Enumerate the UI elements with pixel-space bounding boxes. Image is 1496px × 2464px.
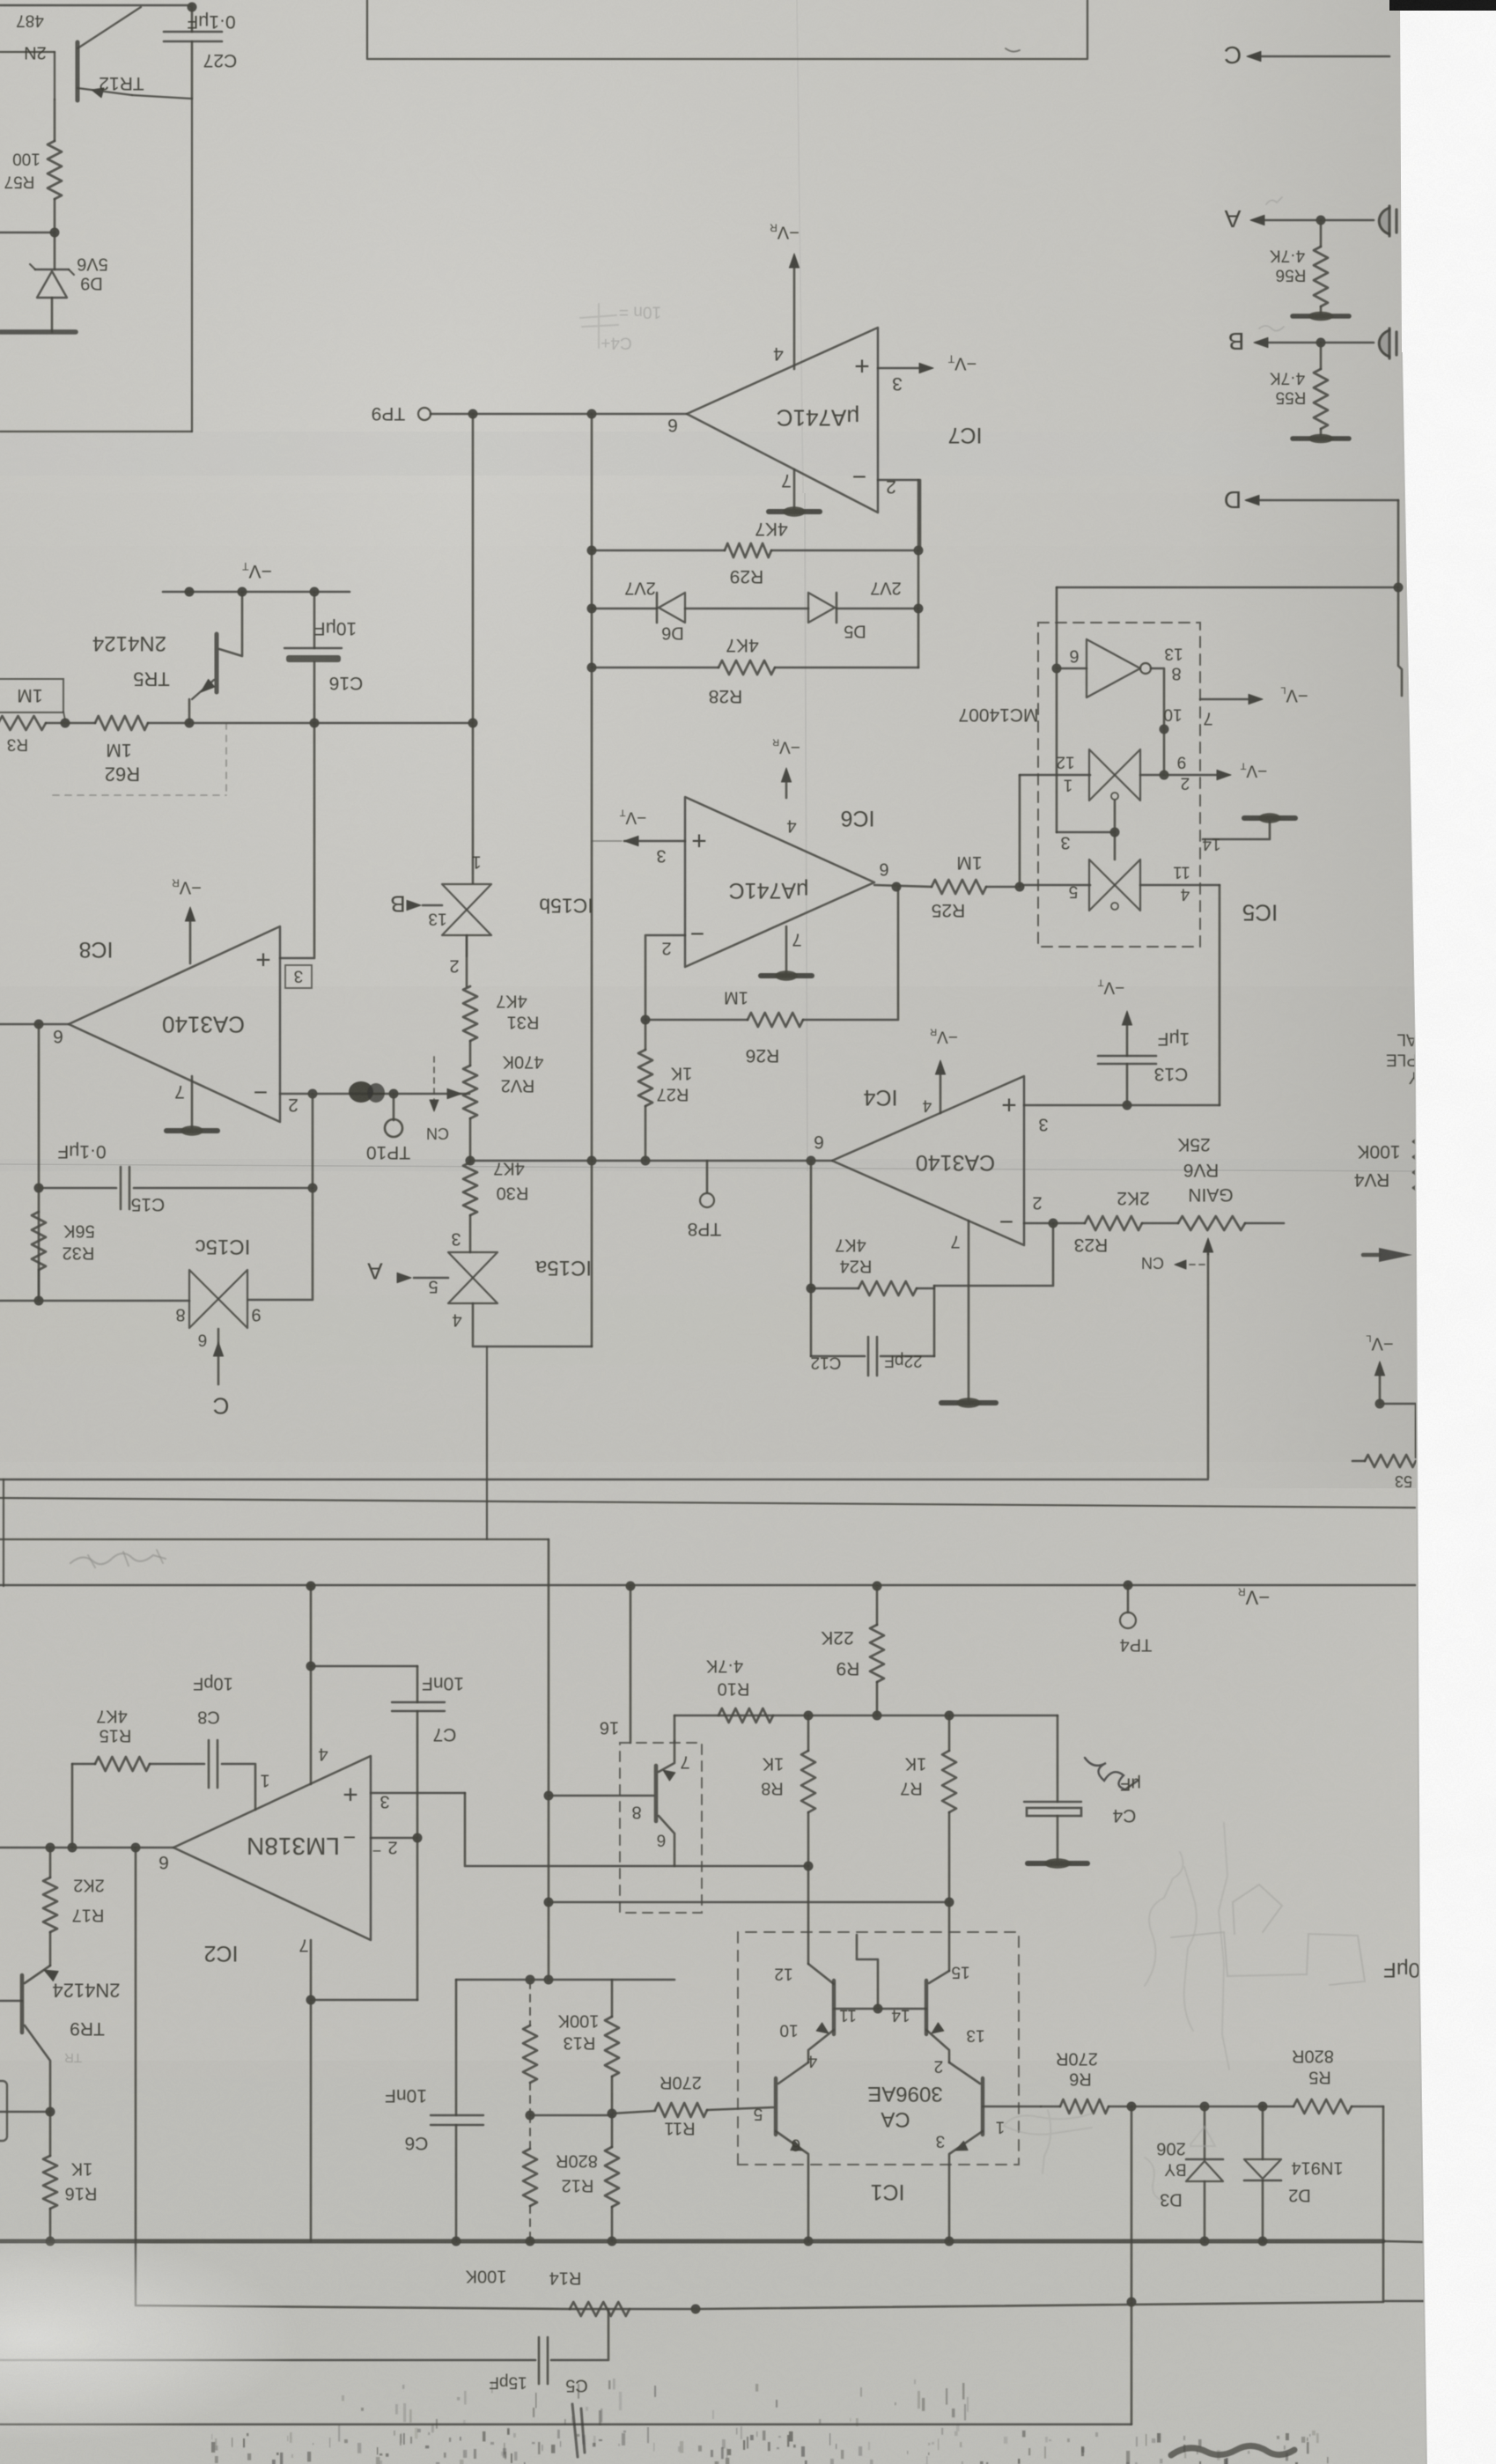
ground IC7 pin7 — [793, 469, 796, 509]
wire IC15a path to lower section — [486, 1346, 488, 1539]
node out col — [131, 1843, 141, 1853]
wire IC8 output — [0, 1023, 69, 1026]
node C13 bottom — [1123, 1101, 1132, 1110]
node out R17 — [46, 1843, 55, 1853]
black bar top right corner — [1389, 0, 1496, 11]
node R16 rail — [46, 2237, 55, 2246]
resistor R9 22K — [876, 1586, 879, 1625]
analog switch IC15b — [442, 884, 491, 910]
wire C7 column down — [416, 1838, 419, 2000]
node d2 — [544, 1975, 554, 1985]
resistor R53 — [1365, 1455, 1416, 1467]
wire to IC15c — [0, 1300, 189, 1302]
node D2 rail — [1258, 2237, 1268, 2246]
node R10 right — [804, 1711, 814, 1721]
connector left edge — [0, 2081, 7, 2141]
wire R62 row to column B — [189, 722, 473, 725]
wire C16 column to IC8 pin3 — [280, 723, 314, 958]
dashed CN arrow RV6 — [1180, 1264, 1208, 1265]
ghost scribbles bleedthrough — [1004, 1823, 1229, 2200]
wire R5 down — [1383, 2106, 1430, 2301]
wire pin7 link row — [311, 1999, 417, 2002]
node rail R9 — [873, 1582, 882, 1591]
node pin2 b — [389, 1089, 399, 1099]
resistor R57 100K — [54, 100, 56, 141]
wire IC5 pin7 -VL — [1200, 698, 1257, 701]
wire -VL loop — [1380, 1404, 1416, 1457]
wire D3 D2 row — [1131, 2106, 1293, 2108]
section divider line — [0, 1498, 1415, 1508]
box outline left block — [191, 99, 193, 432]
wiper RV4 arrow — [1379, 1248, 1412, 1262]
fold crease horizontal — [0, 1159, 1418, 1171]
wire D down — [1398, 500, 1402, 696]
node rail 1 — [185, 587, 195, 597]
wire link R12 R13 — [530, 2114, 612, 2117]
op-amp IC8 CA3140 — [69, 926, 280, 1122]
wire TP9 to IC7 output — [473, 413, 687, 416]
wire column x154 down — [136, 1848, 570, 2309]
smudge bottom right — [1171, 2446, 1294, 2455]
capacitor C4 22uF — [674, 1715, 676, 1741]
node C15 right — [308, 1184, 318, 1193]
test point TP10 — [393, 1094, 395, 1120]
ghost mark near B — [1259, 326, 1284, 331]
wire pin16 stub — [630, 1586, 632, 1743]
resistor R31 4K7 — [463, 986, 477, 1041]
ground wire bottom of D9 — [0, 329, 76, 335]
node IC7 output branch — [587, 409, 597, 419]
wire column R25 up — [1019, 775, 1021, 887]
capacitor C27 — [191, 7, 194, 32]
node x1285 R14 — [1127, 2298, 1137, 2307]
node TR5 emitter — [185, 719, 195, 728]
node A row — [1316, 216, 1326, 225]
transistor Q3 ca3096 — [774, 2078, 777, 2135]
wire bottom return — [0, 2423, 1131, 2425]
capacitor C12 22pF — [811, 1355, 865, 1358]
node R14 right — [691, 2305, 701, 2314]
transistor TR12 — [76, 42, 80, 100]
capacitor C7 10nF — [311, 1665, 417, 1668]
node gate1 out — [1160, 771, 1169, 780]
resistor R11 270R — [612, 2111, 655, 2114]
node top row right — [1394, 583, 1404, 593]
dashed box FET — [620, 1743, 702, 1913]
wire IC6 pin3 arrow -VT — [624, 840, 685, 843]
wire gate1 row — [1020, 774, 1090, 777]
resistor R8 1K — [807, 1715, 810, 1751]
capacitor C16 10uF — [313, 592, 316, 648]
resistor R17 2K2 — [49, 1848, 52, 1878]
node IC6 pin2 — [641, 1015, 651, 1025]
inverter IC5a — [1087, 639, 1140, 697]
ghost capacitor C4 top faint — [580, 304, 618, 348]
fold crease band middle — [0, 1295, 1418, 1365]
bottom noise band — [211, 2379, 1329, 2464]
wiper arrow RV2 — [447, 1088, 461, 1098]
node R12 rail — [608, 2237, 617, 2246]
node R24 left — [807, 1284, 816, 1294]
wire IC4 pin3 row — [1024, 1104, 1220, 1107]
potentiometer RV6 25K GAIN — [1178, 1216, 1245, 1230]
node C16 bottom — [310, 719, 320, 728]
ground IC4 pin7 — [968, 1221, 970, 1400]
wire IC6 pin2 loop — [645, 935, 685, 1020]
ink blot — [349, 1081, 373, 1103]
wire IC2 pin3 row — [371, 1792, 465, 1795]
wire Q6 collector link — [949, 2062, 980, 2084]
node R7 top — [945, 1711, 954, 1721]
node left vertical — [34, 1296, 44, 1306]
paper grain overlay 2 — [0, 0, 1, 1]
wire IC2 pin4 — [310, 1586, 313, 1784]
node x672 — [587, 1156, 597, 1166]
node R57/D9 — [50, 228, 60, 238]
node R9 bottom — [873, 1711, 882, 1721]
wire IC8 pin2 row — [280, 1093, 469, 1096]
analog switch IC15c — [189, 1270, 218, 1328]
resistor R25 1M — [874, 885, 932, 887]
test point TP8 — [706, 1161, 709, 1192]
box outline top — [367, 0, 1087, 59]
transistor IC3 fet — [654, 1766, 659, 1821]
resistor R12 820R — [611, 2115, 614, 2147]
node C15 left — [34, 1184, 44, 1193]
op-amp IC2 LM318N — [173, 1756, 371, 1940]
wire IC6 pin4 to -VR — [785, 771, 788, 798]
wire row y2119 — [465, 1793, 808, 1866]
resistor R6 270R — [1041, 2106, 1060, 2108]
ground rail thick — [0, 2239, 1383, 2244]
node d1 — [526, 1975, 535, 1985]
op-amp IC7 uA741C — [687, 328, 878, 513]
node rail TP4 — [1124, 1581, 1133, 1590]
resistor R32 56K — [32, 1212, 46, 1270]
wire gate2 in — [1020, 884, 1090, 887]
node R13 bottom — [608, 2109, 617, 2119]
node R25 right — [1015, 882, 1025, 892]
capacitor C15 0.1uF — [39, 1187, 116, 1190]
resistor R10 4K7 — [719, 1708, 773, 1723]
wire column B top — [472, 414, 475, 883]
wire top-left horizontal — [0, 4, 192, 6]
resistor R56 4K7 — [1320, 220, 1323, 247]
wire rail line3 — [0, 1538, 549, 1540]
wire gate1 out to -VT — [1140, 774, 1226, 777]
resistor R27 1K — [645, 1020, 647, 1050]
dashed box IC1 CA3096AE — [738, 1932, 1019, 2165]
wire R30 to IC15a — [469, 1215, 472, 1252]
wire IC8 pin4 to -VR — [189, 911, 192, 963]
dashed CN arrow — [433, 1057, 435, 1106]
node IC2 pin4 rail — [306, 1582, 316, 1591]
node out fb — [68, 1843, 77, 1853]
wire row y2248 — [456, 1979, 674, 1981]
wire IC5 to C13 column — [1219, 885, 1221, 1105]
wire IC7 pin4 to -VR — [793, 257, 796, 369]
node inverter input — [1052, 664, 1062, 674]
node D2 top — [1258, 2102, 1268, 2112]
node row2160 left — [544, 1898, 554, 1907]
ghost sketch bottom — [1171, 1885, 1365, 1985]
node Q45 — [873, 2004, 883, 2014]
diode D6 2V7 — [592, 608, 657, 610]
capacitor C6 10nF — [455, 1980, 458, 2115]
node C6 rail — [452, 2237, 461, 2246]
pin3 box IC8 — [285, 965, 312, 988]
wire Q4 emitter — [808, 2030, 834, 2062]
resistor R15 4K7 feedback — [71, 1764, 74, 1848]
resistor R13b dashed column — [529, 1981, 531, 2025]
wire IC4 pin4 -VR — [940, 1064, 942, 1113]
connector pin A — [1379, 208, 1389, 234]
resistor R13 100K — [611, 1980, 614, 2017]
node R12b rail — [526, 2237, 535, 2246]
resistor R16 1K — [49, 2112, 52, 2156]
resistor R7 1K — [948, 1715, 951, 1751]
wire IC15c out — [248, 1094, 313, 1300]
node rail2 — [626, 1582, 636, 1591]
wire IC2 pin2 row — [371, 1837, 417, 1840]
analog switch IC15a — [448, 1252, 497, 1278]
node R27 bottom — [641, 1156, 651, 1166]
transmission gate IC5 g1 — [1089, 749, 1115, 800]
wire IC7 pin2 vertical — [917, 480, 920, 668]
resistor R28 4K7 — [592, 667, 719, 669]
dashed box MC14007 — [1038, 623, 1200, 947]
wire pin3 row — [1057, 831, 1115, 834]
node R7 bottom — [945, 1898, 954, 1907]
node R62 left — [61, 719, 70, 728]
node pin3 — [1110, 828, 1120, 837]
control arrow C IC15c — [217, 1329, 220, 1384]
diode D3 BY206 — [1204, 2106, 1206, 2159]
wire row y2160 — [549, 1901, 949, 1904]
ground R55 — [1293, 436, 1349, 441]
wire Q6 base out — [983, 2106, 1041, 2108]
paper grain overlay — [0, 0, 1, 1]
arrow -VL — [1379, 1365, 1382, 1402]
node inverter out — [1160, 725, 1169, 734]
wire Q5 collector — [948, 1902, 951, 1971]
test point TP4 — [1127, 1585, 1130, 1612]
label box 1M — [0, 679, 63, 712]
wire R31 to RV2 — [469, 1041, 472, 1066]
resistor R24 4K7 — [811, 1287, 859, 1290]
op-amp IC6 uA741C — [685, 797, 874, 967]
wire inverter out — [1151, 668, 1164, 775]
fold crease vertical — [805, 493, 807, 1171]
stub IC15b pin2 — [466, 936, 468, 956]
capacitor C8 10pF — [208, 1740, 210, 1788]
node C7 tap — [306, 1662, 316, 1671]
left border lower section — [3, 1479, 4, 1586]
wire column x623 — [548, 1539, 550, 1980]
node pin7 link — [306, 1996, 316, 2005]
node D6 left — [587, 604, 597, 614]
node B row — [1316, 338, 1326, 348]
wire MC14007 top row — [1057, 586, 1398, 589]
wire IC8 output down — [38, 1024, 41, 1301]
wire Q3 emitter — [776, 2131, 808, 2241]
node rail 3 — [310, 587, 320, 597]
node Q6 rail — [945, 2237, 954, 2246]
node R8 bottom — [804, 1862, 814, 1871]
ground IC8 pin7 — [191, 1076, 194, 1128]
transistor TR5 2N4124 — [215, 634, 219, 692]
connector pin B — [1379, 330, 1389, 357]
node rail 2 — [238, 587, 247, 597]
wire column x1200 — [1056, 587, 1058, 832]
node D3 rail — [1200, 2237, 1210, 2246]
resistor R14 100K — [570, 2302, 630, 2316]
potentiometer RV2 470K — [463, 1066, 477, 1118]
power rail -VT top — [163, 591, 350, 594]
node R29 left — [587, 546, 597, 556]
potentiometer RV4 partial — [1413, 1138, 1426, 1199]
wire inverter input — [1057, 668, 1087, 670]
resistor R30 4K7 — [463, 1162, 477, 1215]
wire row y1948 — [674, 1715, 1058, 1717]
zener diode D9 5V6 — [54, 232, 56, 269]
node R28 left — [587, 663, 597, 673]
transistor TR9 2N4124 — [20, 1975, 25, 2032]
wire long row y1318 — [470, 1160, 832, 1162]
node D3 top — [1200, 2102, 1210, 2112]
wire IC4 pin2 loop — [1024, 1222, 1053, 1225]
wire Q4 Q5 link — [834, 2008, 926, 2010]
resistor R12b dashed column — [523, 2149, 537, 2206]
wire IC15a pin4 path — [473, 1303, 592, 1346]
node IC4 out — [807, 1156, 816, 1166]
capacitor C5 15pF — [0, 2359, 535, 2362]
resistor R36 1M partial left edge — [0, 716, 46, 730]
node FET gate — [544, 1791, 554, 1801]
node D5 right — [914, 604, 924, 614]
transistor Q4 ca3096 — [832, 1981, 836, 2034]
ghost mark near A — [1266, 197, 1282, 204]
resistor R23 2K2 — [1053, 1222, 1085, 1225]
resistor R55 4K7 — [1320, 343, 1323, 369]
transmission gate IC5 g2 — [1089, 859, 1115, 911]
node IC8 output — [34, 1020, 44, 1029]
wire long vertical left of IC6 — [591, 414, 593, 1346]
capacitor C13 1uF — [1126, 1014, 1129, 1056]
node C7 pin2 — [413, 1833, 423, 1843]
wire Q6 emitter — [949, 2131, 983, 2241]
wire R14 row — [570, 2308, 696, 2311]
ground IC6 pin7 — [785, 926, 788, 973]
wire x1285 column — [1131, 2106, 1133, 2424]
fold dashes — [225, 723, 227, 795]
ghost handwriting — [70, 1553, 166, 1564]
scanner background right edge — [1400, 0, 1496, 2464]
resistor R26 1M feedback — [645, 1019, 748, 1022]
wire Q5 emitter — [926, 2030, 949, 2062]
wire IC2 output row — [0, 1847, 173, 1849]
wire IC7 pin2 loop — [878, 480, 920, 550]
resistor R62 1M — [46, 722, 95, 725]
wire C12 right vertical — [933, 1286, 936, 1356]
node pin2 a — [308, 1089, 318, 1099]
wire IC4 feedback column — [810, 1161, 813, 1356]
node R6 right — [1127, 2102, 1137, 2112]
wire gate2 out — [1140, 884, 1220, 887]
diode D5 2V7 — [685, 608, 808, 610]
resistor R5 820R — [1293, 2099, 1352, 2114]
node RV2/R30 — [466, 1156, 475, 1166]
node R13b bottom — [526, 2111, 535, 2121]
node IC6 output — [892, 882, 902, 892]
node Q3 rail — [804, 2237, 814, 2246]
wire Q3 collector — [778, 2062, 808, 2084]
node column B R62 — [468, 719, 478, 728]
diode D2 1N914 — [1262, 2106, 1264, 2159]
wire middle section bottom rail — [0, 1479, 1208, 1480]
wire IC7 pin3 to -VT — [878, 367, 926, 370]
node -VL — [1375, 1399, 1385, 1409]
transistor Q5 ca3096 — [925, 1981, 928, 2034]
transistor Q6 ca3096 — [981, 2078, 984, 2135]
wire gate interlink — [1114, 800, 1116, 859]
op-amp IC4 CA3140 — [832, 1076, 1024, 1245]
node TR9 emitter — [46, 2107, 55, 2117]
resistor R29 4K7 — [592, 550, 725, 552]
wire IC2 pin7 column — [310, 1940, 313, 2241]
wire IC15b to R31 — [466, 935, 468, 986]
ground IC5 pin14 — [1244, 815, 1295, 821]
ground R56 — [1293, 314, 1349, 319]
node TP9 — [468, 409, 478, 419]
power rail -VR bottom — [0, 1584, 1415, 1587]
node R29 right — [914, 546, 924, 556]
wiper RV6 — [1207, 1242, 1210, 1254]
